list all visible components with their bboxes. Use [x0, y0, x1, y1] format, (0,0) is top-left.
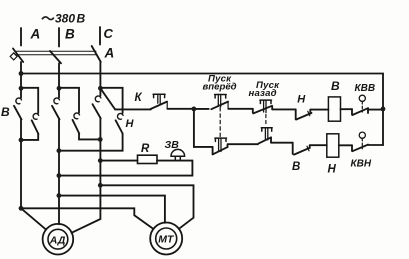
svg-text:В: В [65, 27, 75, 42]
svg-text:КВВ: КВВ [355, 83, 376, 94]
svg-text:МТ: МТ [158, 233, 175, 245]
svg-text:АД: АД [49, 234, 66, 246]
svg-text:R: R [141, 143, 150, 155]
svg-text:Н: Н [328, 164, 337, 176]
svg-text:В: В [77, 12, 86, 26]
svg-text:Н: Н [297, 93, 306, 105]
svg-text:В: В [1, 105, 10, 119]
svg-text:В: В [292, 161, 300, 173]
svg-text:вперёд: вперёд [203, 82, 237, 93]
svg-text:А: А [30, 27, 41, 42]
svg-text:А: А [104, 46, 115, 61]
svg-text:В: В [331, 79, 340, 93]
svg-text:К: К [135, 92, 143, 104]
svg-text:380: 380 [55, 12, 75, 26]
svg-text:ЗВ: ЗВ [165, 139, 180, 151]
svg-text:С: С [104, 26, 114, 41]
svg-text:КВН: КВН [351, 159, 372, 170]
svg-text:Н: Н [126, 118, 135, 130]
svg-text:назад: назад [249, 88, 277, 99]
